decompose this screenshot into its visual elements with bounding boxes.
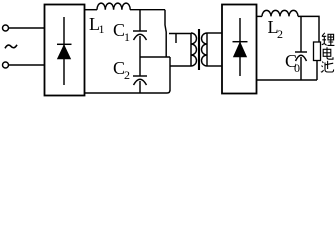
svg-text:1: 1: [124, 30, 130, 44]
svg-text:2: 2: [124, 68, 130, 82]
svg-text:1: 1: [99, 22, 105, 36]
svg-text:2: 2: [277, 27, 283, 41]
svg-text:0: 0: [294, 61, 300, 75]
